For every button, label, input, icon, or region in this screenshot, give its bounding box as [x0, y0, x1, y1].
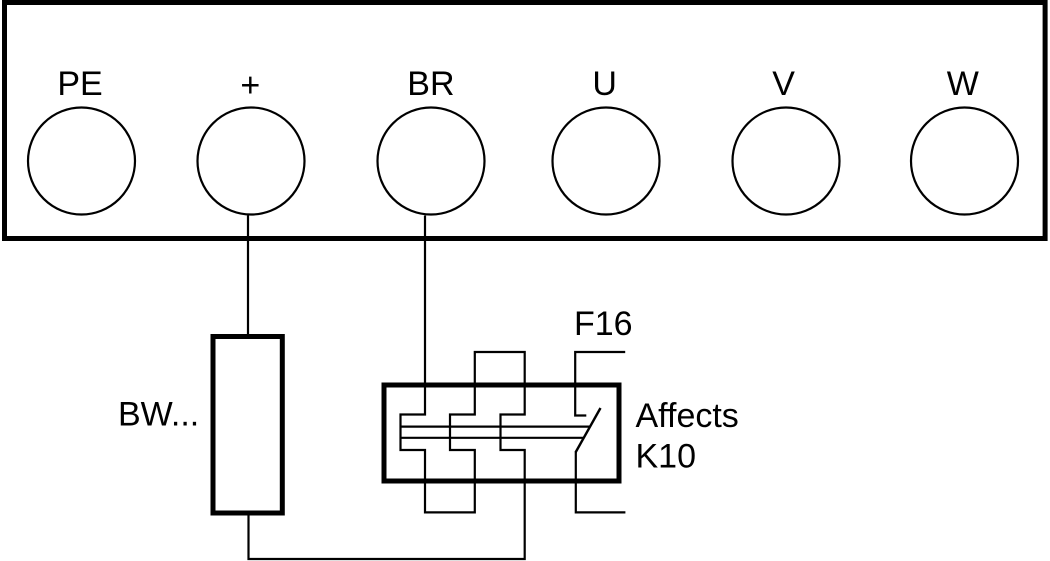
svg-text:BW...: BW... [118, 395, 199, 433]
svg-text:+: + [240, 67, 260, 105]
svg-text:BR: BR [407, 65, 454, 103]
svg-text:K10: K10 [636, 438, 697, 476]
svg-text:V: V [772, 65, 795, 103]
svg-text:U: U [592, 65, 617, 103]
svg-text:PE: PE [57, 65, 102, 103]
svg-text:W: W [947, 65, 979, 103]
svg-text:Affects: Affects [636, 397, 739, 435]
svg-text:F16: F16 [574, 305, 633, 343]
